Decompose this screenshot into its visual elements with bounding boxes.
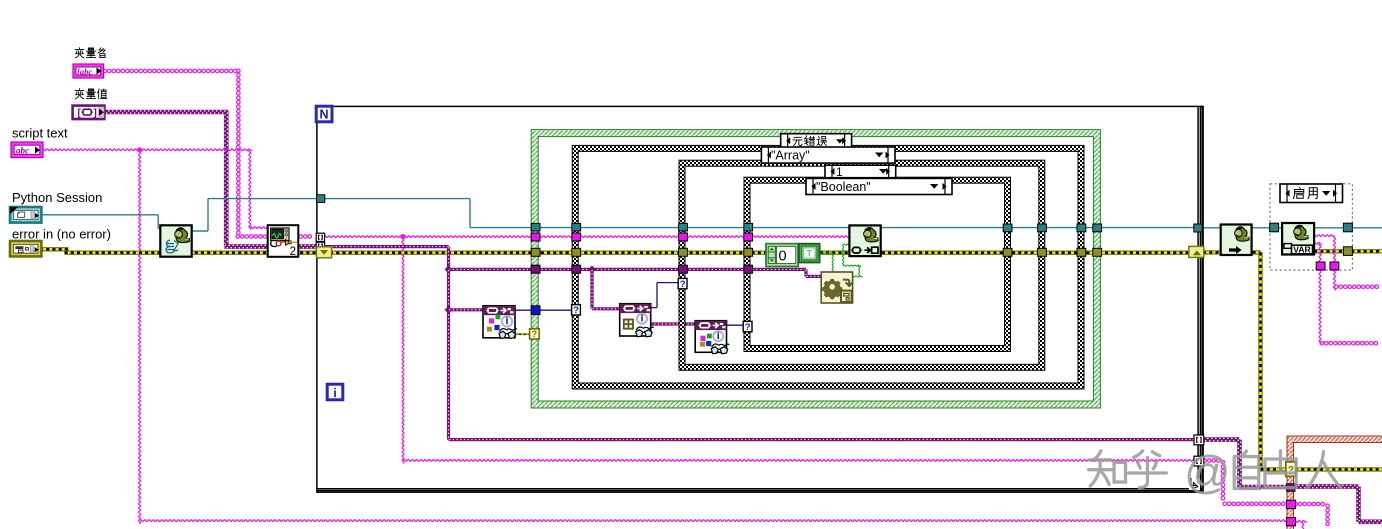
node Python sub-VI 2 (instrument icon) [268, 225, 299, 257]
junction variant wire at node D feed [445, 306, 453, 314]
wire error out of VAR node through tunnel to right edge [1314, 249, 1382, 253]
wire string-array inside red-hatched case turning down [1294, 502, 1325, 506]
tunnel teal on dotted frame right [1343, 223, 1352, 232]
svg-text:N: N [319, 108, 328, 122]
wire int selector from node B up to case-1 selector [650, 307, 657, 309]
selector label "1" [825, 165, 896, 178]
tunnel string-array on red case left [1286, 500, 1295, 508]
wire variant from node B to node C [650, 322, 696, 325]
selector terminal ? of Boolean case (blue) [743, 321, 752, 331]
svg-text:Python Session: Python Session [12, 190, 102, 205]
node C boolean type info (feeds Boolean selector) [695, 321, 726, 353]
indexing tunnel [] 变量名 into loop [316, 233, 324, 241]
terminal script text (string control) [11, 142, 43, 158]
tunnel teal on case-1 left [679, 223, 688, 231]
wire string-array out of loop down to red-hatched case [1203, 459, 1220, 463]
for-loop frame [317, 106, 1203, 492]
tunnel error on case-1 left [679, 248, 688, 256]
node B array element type info (feeds case-1 selector) [620, 304, 651, 336]
wire variant branch down to data-info node D and bottom return [447, 269, 450, 439]
wire variant-array inside red-hatched case to bottom right [1294, 484, 1359, 489]
svg-text:2: 2 [290, 246, 296, 258]
tunnel string on green case left [531, 233, 540, 241]
label 变量名 [75, 48, 84, 58]
wire string VAR-value from VAR node down through tunnel to circles rail [1314, 235, 1335, 237]
tunnel teal on Array case left [572, 223, 581, 231]
tunnel teal on Boolean case right [1003, 224, 1012, 232]
junction variant wire at node B feed [588, 265, 596, 273]
junction variant wire [445, 265, 453, 273]
tunnel string-1 on dotted frame bottom [1316, 262, 1325, 270]
svg-text:[abc: [abc [77, 67, 92, 77]
tunnel string on Boolean case left [744, 233, 753, 241]
wire 变量名 string-array: terminal right then down to loop [103, 69, 237, 73]
node Open Python Session (snake + script glyph) [160, 225, 191, 256]
wire 变量值 variant-array: terminal right, down, right to loop tunnel [104, 110, 228, 115]
boolean constant TRUE [T] [799, 244, 820, 263]
tunnel teal on Array case right [1077, 224, 1086, 232]
wire boolean TRUE constant to gear node [820, 253, 834, 254]
case structure 无错误 (green hatched border) [531, 130, 1100, 408]
tunnel variant on green case left [531, 265, 540, 273]
tunnel string-2 on dotted frame bottom [1330, 262, 1339, 270]
wire string inside red-hatched case turning down [1294, 521, 1307, 523]
red hatched case structure bottom-right [1287, 436, 1382, 529]
case structure "1" (checkered border) [679, 160, 1045, 370]
for-loop iteration terminal i [327, 384, 343, 400]
svg-text:0: 0 [779, 249, 787, 265]
tunnel variant on case-1 left [679, 265, 688, 273]
disabled structure dotted frame 启用 [1270, 184, 1352, 270]
svg-text:?: ? [532, 329, 538, 339]
watermark 知乎 @自由人 [1089, 446, 1341, 498]
case structure "Boolean" (checkered border) [744, 177, 1011, 351]
svg-text:@: @ [1184, 446, 1231, 498]
terminal Python Session (session refnum control) [10, 207, 41, 223]
selector terminal ? of Array case (blue) [572, 305, 581, 315]
tunnel error on Boolean case left [744, 248, 753, 256]
label 变量值 [75, 89, 84, 99]
terminal 变量名 (string array control) [73, 64, 104, 78]
wire int selector from node C to Boolean case selector [726, 324, 745, 326]
svg-text:error in (no error): error in (no error) [12, 226, 111, 241]
junction on script text wire [137, 147, 142, 152]
node Python next/iterate (snake + arrow) [1221, 225, 1252, 256]
tunnel error on Boolean case right [1003, 248, 1012, 256]
node Python get VAR (snake + VAR glyph) [1282, 223, 1314, 255]
tunnel variant-array on red case left [1287, 484, 1295, 491]
tunnel error on green case right [1093, 248, 1102, 256]
wire teal after loop to Python close node and right edge [1203, 227, 1382, 229]
tunnel error on green case left [531, 248, 540, 256]
tunnel error on case-1 case right [1038, 248, 1047, 256]
node gear variant-to-data [821, 272, 852, 303]
wire boolean from gear node back up into Python node [852, 276, 863, 277]
tunnel variant on Boolean case left [744, 265, 753, 273]
svg-text:"Array": "Array" [771, 148, 810, 162]
junction and branch of string wire down to bottom return [400, 234, 405, 239]
tunnel teal on Boolean case left [744, 223, 753, 231]
node Python set-variable (snake + var→box glyph) [849, 225, 880, 256]
for-loop count terminal N [316, 106, 332, 122]
tunnel string on red case left [1286, 518, 1295, 526]
selector label 无错误 [781, 134, 852, 148]
tunnel error on dotted frame right [1343, 247, 1352, 256]
tunnel int selector on green case left [531, 306, 540, 315]
svg-text:?: ? [745, 322, 751, 333]
indexing tunnel [] 变量值 into loop [316, 242, 324, 250]
wire selector feed from node D to outer case selector (thin olive dashed) [514, 333, 532, 335]
right shift register (error) ▲ [1189, 246, 1204, 257]
indexing tunnel [] string array out of loop [1194, 456, 1204, 466]
tunnel teal Python-session into loop [317, 195, 325, 203]
wire script text branch down left side to bottom rail [139, 150, 141, 524]
tunnel error on Array case right [1077, 248, 1086, 256]
selector terminal ? of case-1 (blue) [678, 278, 687, 288]
svg-text:?: ? [680, 279, 686, 290]
tunnel string on Array case left [572, 233, 581, 241]
tunnel teal on dotted frame left [1270, 223, 1279, 232]
wire teal inside loop stepping down to case tunnel [324, 198, 470, 200]
svg-text:i: i [333, 386, 336, 400]
selector label 启用 [1280, 184, 1343, 203]
node D variant type info (feeds Array selector) [483, 306, 515, 338]
tunnel teal on green case left [531, 223, 540, 231]
selector label "Array" [761, 147, 895, 163]
svg-text:]: ] [94, 108, 97, 119]
tunnel teal on green case right [1093, 224, 1102, 232]
svg-text:"Boolean": "Boolean" [816, 180, 871, 194]
left shift register (error) ▼ [316, 247, 331, 258]
case structure "Array" (checkered border) [572, 145, 1084, 389]
terminal 变量值 (variant array control) [72, 105, 105, 120]
svg-text:abc: abc [16, 145, 29, 155]
for-loop corner resize glyph [1189, 478, 1200, 490]
svg-text:script text: script text [12, 126, 68, 141]
svg-text:VAR: VAR [1293, 245, 1311, 255]
svg-text:T: T [807, 249, 813, 259]
tunnel teal on loop right [1194, 224, 1202, 232]
svg-text:1: 1 [836, 165, 843, 179]
wire string VAR-name from VAR node down through tunnel to circles rail [1314, 243, 1322, 245]
selector terminal ? of red-hatched case (olive) [1286, 462, 1296, 477]
tunnel teal on case-1 case right [1038, 224, 1047, 232]
wire Python Session teal refnum to Open node [40, 214, 158, 216]
wire error after loop turning down to lower case selector [1203, 250, 1261, 254]
selector terminal ? of green case (olive) [530, 329, 540, 339]
indexing tunnel [] variant array out of loop [1194, 435, 1204, 445]
tunnel error on Array case left [572, 248, 581, 256]
wire error-in cluster from terminal to loop shift register [40, 247, 69, 251]
wire error cluster across cases inside loop [330, 250, 1190, 254]
svg-text:?: ? [573, 305, 579, 316]
wire int selector from node D to Array case selector [514, 309, 575, 311]
wire variant-array out of loop to red-hatched case [1203, 437, 1240, 442]
wire script text string from terminal with junction [42, 149, 252, 151]
wire error inside red-hatched case to right edge [1295, 467, 1382, 471]
numeric constant 0 with increment/decrement [766, 244, 798, 267]
wire string (auto-indexed element) across cases to Python node [324, 236, 853, 238]
tunnel variant on Array case left [572, 265, 581, 273]
tunnel string on case-1 left [679, 233, 688, 241]
wire variant element from tunnel, down, across cases to gear node [324, 245, 449, 248]
wire teal from Open node up to For-loop tunnel [191, 230, 208, 232]
selector label "Boolean" [806, 178, 952, 194]
terminal error in (error cluster control) [10, 241, 41, 256]
